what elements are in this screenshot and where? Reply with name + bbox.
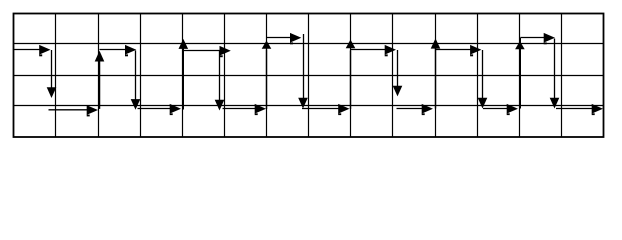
arrow H4: high segment right (upper level) <box>267 33 302 43</box>
grid column lines <box>56 14 562 138</box>
arrow H2: high segment right <box>100 45 137 55</box>
arrow D3: down transition <box>215 51 225 111</box>
arrow D5: down transition <box>393 50 403 96</box>
arrow L2: low segment right <box>138 104 182 114</box>
arrow L7: low segment right to border <box>556 104 603 114</box>
arrow U5: up transition <box>431 38 441 108</box>
arrow D6: down transition <box>478 50 488 109</box>
arrow U1: up transition <box>95 51 105 109</box>
grid table frame <box>14 14 604 138</box>
arrow D2: down transition <box>131 50 141 109</box>
arrow D7: down transition <box>550 39 560 109</box>
arrow L4: low segment right <box>302 104 350 114</box>
grid row lines <box>14 44 604 106</box>
arrow H3: high segment right <box>183 46 231 56</box>
arrow L3: low segment right <box>223 104 267 114</box>
arrow U4: up transition <box>346 40 356 110</box>
arrowhead serration marks <box>39 42 595 116</box>
arrow H6: high segment right <box>436 45 482 55</box>
arrow H5: high segment right <box>351 45 396 55</box>
arrow H7: high segment right (upper level) <box>520 33 555 43</box>
arrow D4: down transition <box>298 34 308 109</box>
arrow U2: up transition <box>179 39 189 110</box>
arrow U6: up transition <box>515 38 525 109</box>
arrow L1: low segment right <box>49 105 99 115</box>
arrow L5: low segment right <box>397 104 434 114</box>
arrow U3: up transition <box>262 41 272 110</box>
arrow D1: down transition <box>47 50 57 98</box>
arrow L6: low segment right <box>483 104 518 114</box>
arrow H1: high segment right <box>14 45 51 55</box>
